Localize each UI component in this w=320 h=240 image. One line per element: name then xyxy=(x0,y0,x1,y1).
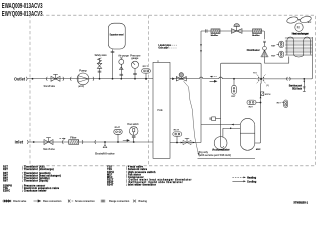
air purge valve xyxy=(118,54,129,79)
flow arrow xyxy=(181,142,183,144)
svg-text:5/16 inch: 5/16 inch xyxy=(292,88,302,90)
thermistor R5T coil middle xyxy=(271,51,284,57)
flow arrow discharge xyxy=(260,96,262,98)
screw connection outlet xyxy=(25,77,28,81)
svg-text:R14T: R14T xyxy=(107,183,114,186)
expansion vessel xyxy=(108,23,125,79)
dashed separator hydro/outdoor xyxy=(148,15,150,166)
brazing symbol xyxy=(133,200,136,203)
node R3T junction xyxy=(233,78,235,80)
cooling flow arrow xyxy=(210,80,217,82)
node R13T junction xyxy=(176,142,178,144)
svg-text:Distributor: Distributor xyxy=(247,48,260,52)
muffler 2 xyxy=(252,29,261,37)
svg-text:S1PH: S1PH xyxy=(265,94,271,96)
svg-text:R3T: R3T xyxy=(231,96,236,98)
svg-text:R2T: R2T xyxy=(3,168,8,171)
wire bottom service line xyxy=(198,158,256,160)
screw connection on coil pipe xyxy=(287,77,291,81)
pressure sensor S1NPH xyxy=(209,117,220,121)
accumulator xyxy=(212,128,229,151)
svg-text:PHE: PHE xyxy=(157,108,163,112)
title model names xyxy=(2,3,43,18)
wire distributor to coil xyxy=(265,57,289,64)
svg-text:(M1P): (M1P) xyxy=(78,86,84,88)
pump M1P xyxy=(77,69,89,88)
liquid stop valve xyxy=(183,138,191,144)
fan M1F xyxy=(286,15,312,31)
thermistor R11T outlet water xyxy=(142,66,151,79)
node junction outlet xyxy=(32,78,34,80)
screw connection xyxy=(62,77,65,81)
flare connection symbol xyxy=(34,200,41,202)
svg-text:R6T: R6T xyxy=(3,179,8,182)
diagonal liquid pipe from EEV xyxy=(184,81,199,154)
filter xyxy=(69,135,79,144)
svg-text:R4T: R4T xyxy=(271,45,276,48)
screw connection xyxy=(45,77,48,81)
svg-text:M1C: M1C xyxy=(256,149,261,151)
drain/fill valve xyxy=(95,141,115,155)
shut-off valve outlet xyxy=(44,74,60,88)
svg-text:Flare connection: Flare connection xyxy=(43,200,62,203)
compressor M1C xyxy=(240,118,261,150)
air heat exchanger coil fins xyxy=(285,37,313,55)
svg-text:R11T: R11T xyxy=(143,66,149,68)
wire PHE right to stop valve xyxy=(170,142,201,144)
svg-text:M: M xyxy=(297,26,300,30)
svg-text:R13T: R13T xyxy=(174,129,180,131)
svg-text:Shut off valve: Shut off valve xyxy=(43,147,55,151)
coil serpentine tubes xyxy=(287,37,311,63)
cooling flow arrow xyxy=(123,140,129,142)
svg-text:Shut off valve: Shut off valve xyxy=(44,84,56,88)
svg-text:EWAQ009-013ACV3: EWAQ009-013ACV3 xyxy=(2,3,43,10)
svg-text:Cooling: Cooling xyxy=(247,180,257,183)
service port xyxy=(289,79,306,92)
unit dashed border xyxy=(30,15,316,166)
wire 4-way to coil gas side xyxy=(266,37,313,79)
svg-text:: Inlet water thermistor: : Inlet water thermistor xyxy=(126,183,156,186)
svg-text:Drg only: Drg only xyxy=(199,152,209,154)
svg-text:E1HC: E1HC xyxy=(3,189,10,192)
node outlet label xyxy=(14,76,26,81)
wire PHE to 4-way valve xyxy=(170,78,256,80)
svg-text:3TW58255-1: 3TW58255-1 xyxy=(293,200,308,204)
thermistor R1T air xyxy=(277,100,288,108)
svg-text:gauge: gauge xyxy=(131,57,139,60)
wire discharge line xyxy=(255,83,261,143)
high pressure switch S1PH xyxy=(261,92,271,96)
svg-text:Service port: Service port xyxy=(289,85,303,88)
svg-text:R5T: R5T xyxy=(271,55,276,57)
svg-text:: Thermistor (discharge): : Thermistor (discharge) xyxy=(22,168,54,171)
thermistor R14T inlet water xyxy=(114,126,122,143)
svg-text:Filter: Filter xyxy=(70,135,76,139)
label drg only xyxy=(199,152,232,157)
screw connection xyxy=(206,29,207,32)
wire inlet pipe xyxy=(28,141,153,143)
shut-off valve inlet xyxy=(43,138,55,152)
flow arrow xyxy=(171,78,175,80)
screw connection xyxy=(61,140,64,144)
svg-text:Pump: Pump xyxy=(79,69,87,73)
heating flow arrow dashed xyxy=(212,76,217,78)
solenoid valve Y2S xyxy=(231,23,242,33)
wire down to service line xyxy=(193,142,195,144)
check valve symbol xyxy=(2,200,10,202)
svg-text:Safety valve: Safety valve xyxy=(95,53,107,57)
node R2T junction xyxy=(260,102,262,104)
wire suction line left vertical xyxy=(201,31,240,143)
svg-text:Inlet: Inlet xyxy=(15,140,24,145)
safety valve xyxy=(97,63,101,68)
thermistor R3T xyxy=(231,79,236,98)
svg-text:Heating: Heating xyxy=(247,177,257,180)
thermistor R13T refrigerant liquid xyxy=(173,129,182,142)
flow switch S1L xyxy=(127,123,139,143)
pipe hop over gas line xyxy=(219,77,222,79)
svg-text:(with service port 5/16 inch): (with service port 5/16 inch) xyxy=(199,154,232,157)
arrow on line to compressor xyxy=(231,124,233,126)
screw connection symbol xyxy=(68,200,73,203)
node service port junction xyxy=(303,78,305,80)
flange connection symbol xyxy=(101,200,130,204)
pipe hop over suction line xyxy=(199,77,202,79)
drawing number xyxy=(293,200,308,204)
svg-text:R14T: R14T xyxy=(115,126,121,129)
svg-text:Air purge: Air purge xyxy=(118,54,129,57)
svg-text:Expansion vessel: Expansion vessel xyxy=(110,35,124,37)
heating flow arrow dashed xyxy=(60,138,64,140)
wire accumulator to compressor xyxy=(223,127,240,129)
screw connection xyxy=(81,140,84,144)
pressure gauge xyxy=(130,55,141,80)
label pipes with leaders xyxy=(158,44,171,50)
node junction inlet xyxy=(33,141,35,143)
svg-text:Flange connection: Flange connection xyxy=(109,200,130,203)
wire top pipe xyxy=(201,31,265,39)
node inlet label xyxy=(15,140,24,145)
wire outlet pipe xyxy=(27,78,153,80)
svg-text:EWYQ009-013ACV3: EWYQ009-013ACV3 xyxy=(2,11,43,18)
screw connection inlet xyxy=(26,140,29,144)
svg-text:Accumulator: Accumulator xyxy=(212,149,229,152)
svg-text:Muffler: Muffler xyxy=(211,35,218,37)
svg-text:: Crankcase heater: : Crankcase heater xyxy=(22,189,47,192)
heating cooling legend xyxy=(232,177,256,184)
svg-text:Drain/fill valve: Drain/fill valve xyxy=(95,151,115,155)
screw connection xyxy=(92,77,95,81)
thermistor R2T discharge xyxy=(247,100,261,109)
svg-text:Muffler: Muffler xyxy=(252,35,259,37)
svg-text:R2T: R2T xyxy=(249,107,254,109)
svg-text:Screw connection: Screw connection xyxy=(75,200,95,203)
svg-text:Flow switch: Flow switch xyxy=(127,123,139,126)
svg-text:Check valve: Check valve xyxy=(13,201,27,203)
muffler 1 xyxy=(211,29,220,37)
svg-text:R1T: R1T xyxy=(277,103,282,105)
safety valve branch xyxy=(95,53,107,79)
svg-text:Brazing: Brazing xyxy=(139,201,148,203)
svg-text:(1): (1) xyxy=(266,85,269,87)
electronic expansion valve Y1E xyxy=(176,73,186,81)
wire 4-way top port to accumulator xyxy=(221,63,261,136)
svg-text:Heat exchanger: Heat exchanger xyxy=(292,33,309,36)
svg-text:Outlet: Outlet xyxy=(14,76,26,81)
svg-text:: Thermistor (liquid): : Thermistor (liquid) xyxy=(22,179,48,182)
flow arrows on suction vertical xyxy=(200,44,202,46)
thermistor R4T coil xyxy=(271,41,284,47)
